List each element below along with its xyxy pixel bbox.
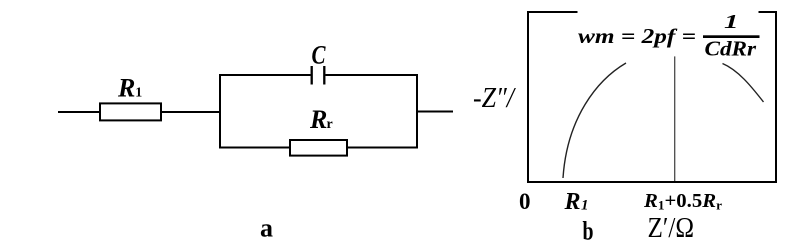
svg-text:R: R <box>309 105 327 134</box>
svg-text:R: R <box>564 189 581 215</box>
svg-text:1: 1 <box>724 11 739 33</box>
svg-text:wm = 2pf =: wm = 2pf = <box>578 24 696 48</box>
svg-text:Z′/Ω: Z′/Ω <box>648 212 695 244</box>
svg-text:R1+0.5Rr: R1+0.5Rr <box>643 191 723 213</box>
svg-text:a: a <box>260 214 273 243</box>
svg-text:1: 1 <box>135 86 142 101</box>
svg-text:CdRr: CdRr <box>705 36 757 60</box>
svg-text:1: 1 <box>581 198 589 214</box>
svg-text:0: 0 <box>519 189 531 214</box>
svg-text:b: b <box>583 217 594 244</box>
svg-text:R: R <box>117 74 135 103</box>
svg-text:r: r <box>327 117 333 132</box>
svg-text:-Z″/: -Z″/ <box>473 83 516 114</box>
svg-text:C: C <box>312 41 327 70</box>
